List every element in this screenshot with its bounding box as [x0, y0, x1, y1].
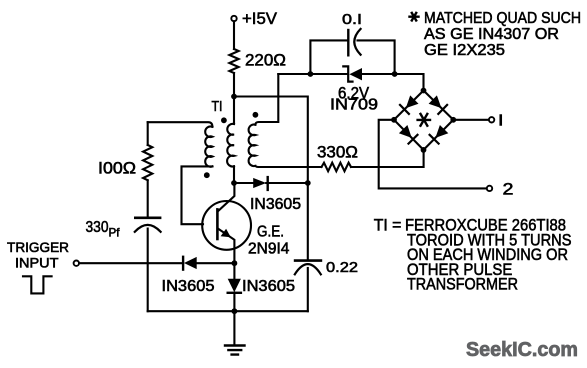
node E emitter junction dot — [232, 260, 238, 266]
wire right winding top from zener junction — [255, 74, 278, 125]
wire right winding bottom to 330 ohm resistor — [255, 166, 321, 167]
resistor 220 ohm — [229, 49, 238, 73]
capacitor C3 0.1 right curved plate — [354, 29, 360, 55]
wire center winding bottom to node C — [233, 166, 235, 183]
terminal 2 circle — [487, 186, 492, 191]
wire quad right vertex to terminal 1 — [453, 119, 488, 121]
wire 100 ohm bottom to C2 top — [147, 180, 149, 217]
zener diode D4 triangle — [349, 68, 362, 80]
diode D3 1N3605 triangle — [228, 279, 241, 292]
svg-text:IN3605: IN3605 — [250, 196, 301, 213]
capacitor C4 0.22 bottom curved plate — [295, 264, 321, 274]
svg-text:GE I2X235: GE I2X235 — [424, 42, 505, 59]
matched quad diamond edges — [394, 91, 453, 150]
transistor Q1 emitter arrow — [221, 229, 231, 238]
quad diode top-right cathode bar — [438, 105, 447, 114]
wire zener D4 to node G — [362, 73, 395, 75]
wire node A area to zener junction left — [278, 73, 310, 75]
diode D1 1N3605 cathode bar — [267, 177, 269, 190]
svg-text:TI: TI — [212, 99, 223, 115]
quad diode bottom-right triangle — [435, 125, 448, 138]
wire diode D2 to node E — [197, 262, 235, 264]
svg-text:I00Ω: I00Ω — [98, 159, 136, 178]
diode D1 1N3605 triangle — [253, 178, 266, 188]
phasing dot right winding top — [253, 112, 259, 118]
transistor Q1 base bar — [216, 209, 219, 239]
node C collector junction dot — [231, 180, 237, 186]
terminal 1 circle — [489, 117, 494, 122]
svg-text:Pf: Pf — [109, 226, 121, 240]
quad right vertex dot — [450, 117, 456, 123]
capacitor C2 330pf top plate — [135, 217, 160, 220]
svg-text:TRIGGER: TRIGGER — [7, 239, 69, 255]
wire diode D1 to node B — [266, 182, 308, 184]
wire right bus C4 bottom to ground bus — [307, 268, 309, 311]
capacitor C3 0.1 left plate — [347, 30, 349, 55]
wire left winding top from R2 — [148, 122, 213, 127]
transistor Q1 emitter lead — [218, 229, 234, 264]
svg-text:AS GE IN4307 OR: AS GE IN4307 OR — [424, 26, 559, 43]
quad left vertex dot — [391, 117, 397, 123]
svg-text:G.E.: G.E. — [257, 223, 284, 240]
wire left winding bottom to base corner — [182, 166, 213, 224]
svg-text:MATCHED QUAD SUCH: MATCHED QUAD SUCH — [424, 10, 581, 27]
diode D2 1N3605 triangle — [184, 257, 197, 269]
node A junction dot — [231, 94, 237, 100]
node G zener right junction dot — [392, 71, 398, 77]
ground node junction dot — [232, 308, 238, 314]
svg-text:INPUT: INPUT — [15, 255, 59, 271]
quad diode bottom-right cathode bar — [430, 135, 439, 144]
quad top vertex dot — [421, 88, 427, 94]
wire node A to right bus corner — [234, 97, 308, 168]
wire center winding top from node A — [233, 97, 235, 125]
svg-text:0.I: 0.I — [342, 11, 362, 28]
quad bottom vertex dot — [421, 147, 427, 153]
quad diode top-left triangle — [406, 95, 419, 108]
resistor 330 ohm — [322, 163, 352, 172]
phasing dot left winding top — [221, 117, 227, 123]
svg-text:TI =: TI = — [374, 216, 402, 235]
wire R1 bottom to node A — [233, 73, 235, 97]
wire C3 right to node G — [358, 40, 395, 74]
capacitor C2 330pf bottom curved plate — [135, 225, 161, 232]
wire trigger input to diode D2 — [79, 262, 183, 264]
wire node C to diode D1 — [234, 182, 253, 184]
quad center star — [418, 114, 430, 126]
quad diode bottom-left triangle — [399, 125, 412, 138]
quad diode top-right triangle — [429, 95, 442, 108]
resistor 100 ohm — [143, 145, 152, 180]
node B junction dot on right bus — [305, 180, 311, 186]
diode D2 1N3605 cathode bar — [182, 257, 184, 270]
wire ground node to ground symbol — [233, 311, 235, 345]
capacitor C4 0.22 top plate — [295, 259, 321, 262]
terminal +15V — [231, 16, 236, 21]
quad diode bottom-left cathode bar — [409, 135, 418, 144]
star marker top right — [408, 12, 419, 22]
wire 100 ohm top — [147, 122, 149, 145]
transistor Q1 circle — [202, 201, 251, 250]
diode D3 1N3605 cathode bar — [228, 292, 241, 294]
svg-text:+I5V: +I5V — [242, 9, 278, 28]
quad diode top-left cathode bar — [400, 105, 409, 114]
ground symbol — [225, 346, 245, 355]
ground bus wire — [148, 310, 308, 312]
transformer T1 center winding — [227, 124, 234, 167]
wire node F up to C3 left — [310, 40, 348, 74]
svg-text:IN3605: IN3605 — [242, 278, 295, 295]
svg-text:I: I — [498, 113, 504, 130]
wire quad left vertex to terminal 2 — [379, 120, 487, 189]
svg-text:2: 2 — [503, 180, 514, 199]
wire node E to diode D3 — [233, 263, 235, 280]
wire +15V terminal to R1 top — [233, 21, 235, 49]
svg-text:SeekIC.com: SeekIC.com — [466, 338, 578, 361]
wire right bus upper segment to node B — [307, 167, 309, 183]
transformer T1 right winding — [249, 125, 256, 167]
trigger pulse symbol — [23, 276, 52, 293]
wire 330 ohm to quad bottom vertex — [351, 150, 424, 167]
svg-text:IN3605: IN3605 — [162, 278, 215, 295]
wire diode D3 to ground node — [233, 293, 235, 312]
wire C2 bottom to ground bus — [147, 229, 149, 312]
phasing dot left winding bottom — [204, 172, 210, 178]
svg-text:2N9I4: 2N9I4 — [248, 241, 290, 258]
zener diode D4 6.2V IN709 cathode bar — [343, 66, 352, 81]
svg-text:IN709: IN709 — [330, 97, 378, 114]
node F zener left junction dot — [308, 71, 314, 77]
trigger input terminal — [74, 261, 79, 266]
svg-text:330: 330 — [86, 219, 109, 236]
svg-text:330Ω: 330Ω — [317, 143, 358, 162]
transformer T1 left winding — [205, 126, 212, 166]
svg-text:0.22: 0.22 — [326, 259, 358, 276]
wire node F to zener D4 — [310, 73, 348, 75]
svg-text:TRANSFORMER: TRANSFORMER — [407, 275, 518, 294]
wire right bus node B down to C4 top — [307, 183, 309, 260]
transistor Q1 collector lead — [218, 183, 234, 211]
wire node G to quad top vertex — [395, 74, 424, 91]
svg-text:220Ω: 220Ω — [245, 51, 286, 70]
